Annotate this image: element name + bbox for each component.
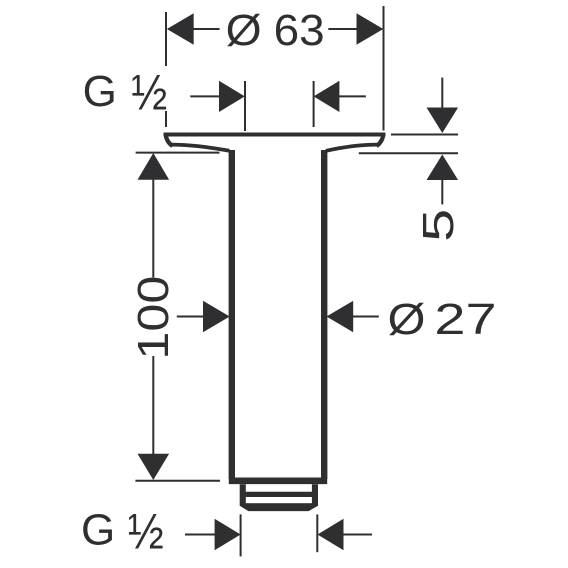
dim63 left extension line lower — [165, 111, 167, 127]
svg-text:Ø: Ø — [388, 295, 426, 344]
ceiling line left — [136, 152, 220, 154]
arrow dim100 top (points up) — [138, 153, 170, 180]
arrow dimG12bottom right (points left) — [318, 519, 344, 551]
dimG12bottom right extension line — [316, 514, 318, 552]
pipe left wall — [229, 150, 235, 479]
dim27 left tail — [177, 316, 204, 318]
flange underside right — [326, 145, 378, 151]
5-dim top reference line — [391, 134, 458, 136]
dim63 line left segment — [193, 28, 220, 30]
svg-text:½: ½ — [128, 504, 164, 560]
svg-text:G: G — [83, 67, 117, 116]
dim100 bottom reference line — [135, 480, 220, 482]
arrow dim5 lower (points up) — [427, 155, 459, 181]
dim27 right tail — [352, 316, 379, 318]
arrow dim5 upper (points down) — [427, 108, 459, 134]
dim100 line upper segment — [152, 179, 154, 278]
dim100 line lower segment — [152, 356, 154, 455]
svg-text:100: 100 — [129, 276, 178, 360]
flange top plate — [164, 133, 385, 481]
dimG12top right extension line — [313, 81, 315, 127]
svg-text:½: ½ — [131, 65, 167, 121]
ceiling line right (5-dim bottom reference) — [359, 152, 458, 154]
svg-text:G: G — [81, 505, 115, 554]
flange right edge — [377, 133, 384, 146]
flange top line — [164, 133, 385, 137]
flange left edge — [165, 133, 172, 146]
svg-text:63: 63 — [274, 6, 325, 55]
arrow dimG12top left — [219, 81, 245, 112]
dimG12bottom right tail — [343, 534, 373, 536]
pipe bottom bar — [229, 477, 327, 484]
pipe right wall — [321, 150, 327, 479]
arrow dimG12top right — [314, 81, 340, 112]
bottom thread — [240, 484, 318, 511]
dim63 left extension line upper — [165, 12, 167, 66]
dimG12top left tail — [190, 95, 220, 97]
dimG12top right tail — [339, 95, 366, 97]
arrow dim63 right — [357, 13, 384, 45]
dimG12top left extension line — [244, 81, 246, 131]
svg-text:5: 5 — [414, 209, 463, 242]
dim63 right extension line — [383, 6, 385, 131]
arrow dim27 right (points left) — [327, 301, 354, 333]
arrow dim27 left (points right) — [203, 301, 230, 333]
svg-text:Ø: Ø — [226, 6, 262, 55]
flange underside left — [171, 145, 229, 151]
dim63 line right segment — [328, 28, 358, 30]
svg-text:27: 27 — [434, 295, 496, 344]
dimG12bottom left extension line — [240, 514, 242, 556]
5-dim upper tail — [441, 78, 443, 109]
arrow dimG12bottom left (points right) — [215, 519, 241, 551]
dimG12bottom left tail — [185, 534, 216, 536]
5-dim lower tail — [441, 180, 443, 205]
arrow dim63 left — [167, 13, 194, 45]
arrow dim100 bottom (points down) — [138, 454, 170, 480]
